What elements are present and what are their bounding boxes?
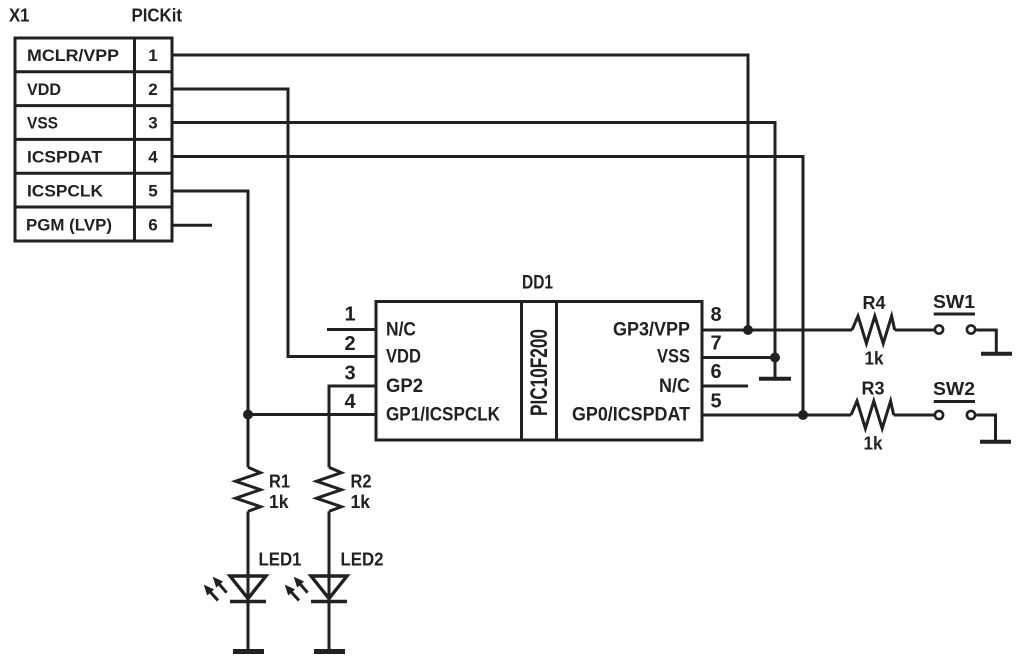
svg-text:SW2: SW2 xyxy=(933,379,975,399)
wire R3 to SW2 xyxy=(894,414,934,417)
svg-text:2: 2 xyxy=(344,333,355,355)
svg-text:6: 6 xyxy=(710,361,721,383)
svg-text:GP3/VPP: GP3/VPP xyxy=(613,320,690,341)
ground bar SW1 xyxy=(981,352,1012,356)
wire IC pin8 to R4 xyxy=(702,329,852,332)
svg-text:1k: 1k xyxy=(865,349,885,369)
junction dot pin5/ICSPDAT xyxy=(798,410,808,420)
wire X1 pin4 ICSPDAT to GP0/ICSPDAT xyxy=(172,157,803,416)
wire R1 to LED1 xyxy=(247,511,250,576)
LED2 xyxy=(311,576,347,650)
connector X1 box xyxy=(15,38,172,241)
svg-text:4: 4 xyxy=(344,391,356,413)
svg-text:LED2: LED2 xyxy=(341,550,384,570)
svg-text:R4: R4 xyxy=(863,293,886,313)
IC pin 1 stub N/C xyxy=(327,328,376,331)
svg-text:LED1: LED1 xyxy=(259,550,302,570)
svg-text:N/C: N/C xyxy=(659,376,690,397)
svg-text:MCLR/VPP: MCLR/VPP xyxy=(27,46,119,65)
svg-text:1: 1 xyxy=(344,304,355,326)
svg-text:4: 4 xyxy=(148,148,158,167)
IC DD1 box xyxy=(376,302,702,441)
wire IC pin5 to R3 xyxy=(702,414,851,417)
svg-text:1k: 1k xyxy=(864,434,884,454)
LED2 arrows xyxy=(285,577,308,601)
svg-text:5: 5 xyxy=(710,391,721,413)
wire IC pin3 GP2 down to R2 xyxy=(329,386,376,467)
svg-text:PICKit: PICKit xyxy=(132,6,183,26)
svg-text:GP2: GP2 xyxy=(386,376,423,397)
switch SW1 xyxy=(935,325,975,333)
svg-text:3: 3 xyxy=(148,114,157,133)
IC pin 6 stub N/C xyxy=(702,385,748,388)
underline SW1 xyxy=(934,313,975,316)
svg-text:ICSPCLK: ICSPCLK xyxy=(27,182,104,201)
ground bar pin7 xyxy=(759,377,791,381)
svg-text:SW1: SW1 xyxy=(933,292,975,312)
svg-text:8: 8 xyxy=(710,304,721,326)
svg-text:VSS: VSS xyxy=(657,347,690,368)
wire IC pin4 GP1/ICSPCLK to junction xyxy=(248,413,376,416)
wire X1 pin1 MCLR/VPP to GP3/VPP xyxy=(172,55,748,330)
wire SW1 to ground xyxy=(976,330,996,352)
resistor R2 xyxy=(317,467,342,511)
wire X1 pin3 VSS to IC VSS xyxy=(172,123,775,358)
LED1 arrows xyxy=(204,577,227,601)
svg-text:PIC10F200: PIC10F200 xyxy=(526,329,553,416)
ground bar LED2 xyxy=(314,649,345,654)
svg-text:1: 1 xyxy=(148,46,157,65)
resistor R1 xyxy=(236,467,261,511)
svg-text:GP1/ICSPCLK: GP1/ICSPCLK xyxy=(386,405,500,426)
wire R2 to LED2 xyxy=(328,511,331,576)
svg-text:X1: X1 xyxy=(9,6,30,26)
wire X1 pin2 VDD to IC VDD xyxy=(172,89,376,357)
wire X1 pin5 ICSPCLK down to R1/GP1 junction xyxy=(172,191,248,467)
resistor R4 xyxy=(852,316,895,344)
svg-text:N/C: N/C xyxy=(386,320,416,341)
svg-text:ICSPDAT: ICSPDAT xyxy=(27,148,103,167)
svg-text:3: 3 xyxy=(344,363,355,385)
svg-text:R2: R2 xyxy=(351,472,372,492)
junction dot pin8/MCLR xyxy=(743,325,753,335)
junction dot pin4/ICSPCLK/R1 xyxy=(243,410,253,420)
LED1 xyxy=(230,576,266,650)
svg-text:6: 6 xyxy=(148,216,157,235)
wire R4 to SW1 xyxy=(895,329,934,332)
ground bar SW2 xyxy=(980,440,1011,444)
svg-text:VDD: VDD xyxy=(386,347,421,368)
svg-text:PGM (LVP): PGM (LVP) xyxy=(26,216,112,235)
ground bar LED1 xyxy=(233,649,264,654)
underline SW2 xyxy=(934,400,975,403)
svg-text:7: 7 xyxy=(710,333,721,355)
svg-text:2: 2 xyxy=(148,80,157,99)
svg-text:R3: R3 xyxy=(862,379,885,399)
svg-text:1k: 1k xyxy=(269,492,289,512)
wire IC pin7 VSS to ground xyxy=(702,358,775,378)
svg-text:R1: R1 xyxy=(269,472,290,492)
wire X1 pin6 PGM stub xyxy=(172,224,212,227)
junction dot pin7/VSS xyxy=(770,353,780,363)
svg-text:1k: 1k xyxy=(351,492,371,512)
svg-text:VSS: VSS xyxy=(27,114,58,133)
svg-text:5: 5 xyxy=(148,182,157,201)
switch SW2 xyxy=(935,411,975,419)
svg-text:VDD: VDD xyxy=(27,80,61,99)
wire SW2 to ground xyxy=(976,415,995,440)
resistor R3 xyxy=(851,401,894,429)
svg-text:DD1: DD1 xyxy=(522,273,553,294)
svg-text:GP0/ICSPDAT: GP0/ICSPDAT xyxy=(572,405,690,426)
